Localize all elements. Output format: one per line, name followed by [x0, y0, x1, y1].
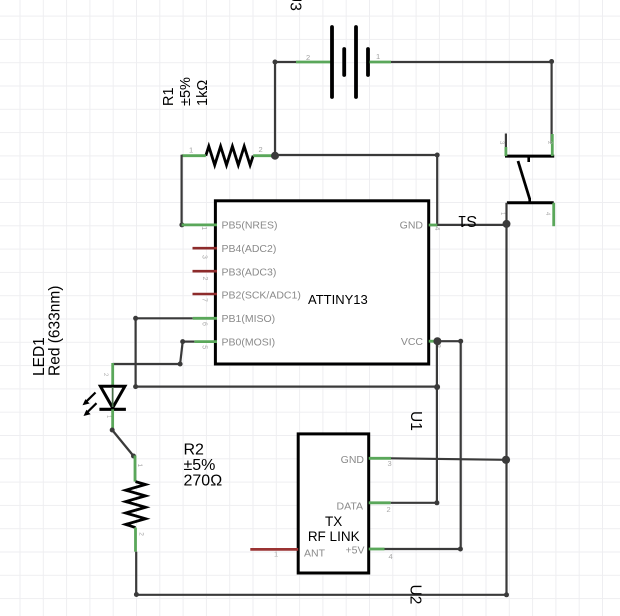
- R1 pin2 green stub: [253, 154, 272, 157]
- pin VCC stub green: [429, 340, 438, 343]
- svg-text:2: 2: [259, 145, 263, 154]
- wire green segment battery pin2: [296, 61, 331, 64]
- pin GND stub green: [429, 224, 438, 227]
- svg-text:5: 5: [201, 345, 208, 349]
- corner dot top right: [549, 59, 554, 64]
- wire +5V horizontal: [385, 548, 461, 550]
- svg-text:PB2(SCK/ADC1): PB2(SCK/ADC1): [222, 290, 301, 302]
- corner dot above GND: [435, 153, 440, 158]
- svg-text:TX: TX: [325, 514, 342, 529]
- svg-text:U1: U1: [407, 411, 424, 431]
- svg-text:±5%: ±5%: [184, 457, 216, 474]
- pin +5V stub green: [369, 548, 385, 551]
- wire R1 pin1 down to PB5: [181, 155, 183, 225]
- LED1 light arrow 2: [86, 403, 97, 413]
- corner dot PB1 bottom: [133, 384, 138, 389]
- R2 pin2 green stub: [134, 528, 137, 552]
- switch S1 top bar: [505, 155, 554, 158]
- LED1 light arrow 1: [85, 393, 96, 403]
- wire DATA to corner: [391, 502, 437, 504]
- wire PB1 to corner: [136, 317, 193, 319]
- svg-text:4: 4: [433, 227, 440, 231]
- LED1 cathode wire green: [111, 409, 114, 430]
- resistor R2: [126, 482, 146, 528]
- LED1 anode wire green: [111, 363, 114, 386]
- svg-text:4: 4: [389, 552, 393, 561]
- corner dot diagonal end: [131, 454, 136, 459]
- corner dot VCC right: [458, 339, 463, 344]
- IC U? ATTINY13 box: [215, 201, 428, 364]
- pin DATA stub green: [369, 501, 391, 504]
- wire LED diagonal: [112, 430, 133, 456]
- S1 bottom tick: [528, 198, 531, 203]
- wire PB1 horizontal to VCC net: [136, 386, 438, 388]
- wire battery pin2 to left corner: [275, 61, 296, 63]
- S1 top-left stub: [505, 134, 507, 149]
- svg-text:+5V: +5V: [346, 545, 365, 557]
- svg-text:PB3(ADC3): PB3(ADC3): [222, 266, 277, 278]
- svg-text:2: 2: [306, 53, 310, 62]
- pin PB1 stub green: [193, 317, 217, 320]
- svg-text:VCC: VCC: [401, 336, 424, 348]
- LED1 inner pin line: [112, 387, 114, 407]
- svg-text:S1: S1: [458, 212, 477, 229]
- svg-text:2: 2: [201, 277, 208, 281]
- svg-text:1: 1: [274, 550, 278, 559]
- svg-text:1: 1: [189, 146, 193, 155]
- junction dot S1 common: [503, 220, 511, 228]
- pin ANT red wire: [250, 548, 298, 551]
- svg-text:3: 3: [388, 459, 392, 468]
- corner dot PB1: [133, 316, 138, 321]
- battery U3 plates: [332, 27, 368, 97]
- svg-text:ATTINY13: ATTINY13: [308, 292, 368, 307]
- svg-text:R2: R2: [184, 442, 205, 459]
- wire green segment battery pin1: [370, 61, 392, 64]
- svg-text:1: 1: [136, 464, 143, 468]
- R1 pin1 green stub: [182, 154, 206, 157]
- svg-text:GND: GND: [341, 454, 365, 466]
- S1 top-right stub green: [551, 134, 554, 156]
- svg-text:PB1(MISO): PB1(MISO): [222, 313, 276, 325]
- svg-text:GND: GND: [400, 220, 424, 232]
- pin PB0 stub green: [194, 340, 217, 343]
- S1 bottom bar: [507, 201, 554, 204]
- LED1 cathode bar: [99, 408, 126, 411]
- svg-text:PB0(MOSI): PB0(MOSI): [222, 336, 276, 348]
- corner dot battery left: [273, 60, 278, 65]
- svg-text:1: 1: [200, 226, 207, 230]
- svg-text:2: 2: [138, 532, 145, 536]
- svg-text:U3: U3: [287, 0, 304, 11]
- corner dot bottom right: [504, 592, 509, 597]
- corner dot DATA: [434, 500, 439, 505]
- corner dot PB0: [180, 339, 185, 344]
- wire long vertical S1 to bottom: [505, 224, 507, 595]
- S1 bottom-left stub: [505, 203, 507, 224]
- pin PB2 stub red: [193, 293, 218, 296]
- corner dot at PB5 wire: [179, 222, 184, 227]
- junction dot RF GND: [502, 456, 510, 464]
- wire PB0 to LED anode: [113, 363, 180, 365]
- svg-text:3: 3: [201, 255, 208, 259]
- wire RF GND to junction: [391, 458, 506, 460]
- svg-text:7: 7: [200, 298, 207, 302]
- corner dot LED cathode: [110, 428, 115, 433]
- svg-text:PB4(ADC2): PB4(ADC2): [222, 243, 277, 255]
- S1 pivot tick: [527, 156, 530, 162]
- svg-text:ANT: ANT: [304, 548, 326, 560]
- wire left vertical from battery to R1 junction: [274, 62, 276, 156]
- junction dot PB1 net: [434, 384, 440, 390]
- svg-text:2: 2: [387, 505, 391, 514]
- LED1 triangle: [100, 386, 125, 408]
- wire bottom horizontal: [136, 594, 506, 596]
- wire GND to S1: [437, 224, 506, 226]
- RF module U1 box: [298, 434, 369, 573]
- junction dot R1 pin2 / battery: [271, 152, 279, 160]
- wire R2 down to bottom: [135, 552, 137, 595]
- svg-text:PB5(NRES): PB5(NRES): [222, 220, 278, 232]
- pin PB5 stub green: [182, 223, 217, 226]
- wire battery pin1 to right corner: [391, 62, 552, 145]
- pin PB3 stub red: [193, 270, 218, 273]
- svg-text:1: 1: [376, 52, 380, 61]
- pin PB4 stub red: [193, 247, 218, 250]
- svg-text:DATA: DATA: [337, 501, 363, 513]
- svg-text:U2: U2: [407, 585, 424, 605]
- resistor R1: [206, 146, 253, 165]
- S1 lever: [518, 161, 530, 199]
- svg-text:RF LINK: RF LINK: [308, 529, 360, 544]
- corner dot +5V: [458, 547, 463, 552]
- svg-text:6: 6: [201, 322, 208, 326]
- wire green to R2: [134, 456, 137, 482]
- wire DATA vertical up to VCC: [436, 341, 438, 503]
- svg-text:270Ω: 270Ω: [184, 473, 223, 490]
- wire R1 junction to GND corner: [275, 155, 437, 225]
- wire PB0 slant down: [180, 342, 183, 364]
- S1 bottom-right stub green: [552, 203, 555, 226]
- wire PB1 vertical down: [135, 318, 137, 386]
- junction dot VCC: [433, 337, 441, 345]
- corner dot bottom left: [134, 592, 139, 597]
- pin GND stub green: [369, 457, 391, 460]
- corner dot PB0 bottom: [178, 362, 183, 367]
- wire VCC to +5V corner: [437, 341, 460, 549]
- wire PB0 to corner: [183, 341, 195, 343]
